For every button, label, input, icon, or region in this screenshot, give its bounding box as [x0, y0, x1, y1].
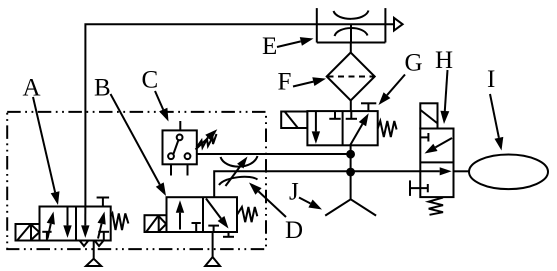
valve G right-box diagonal arrow [350, 113, 368, 145]
valve A spring [111, 213, 129, 230]
valve H middle-box blocked port [420, 133, 428, 142]
wire: supply line from valve A up and across to venturi E [85, 24, 394, 206]
switch C terminal legs [171, 164, 188, 175]
wire from switch C to upper junction [197, 153, 351, 155]
valve A exhaust line and triangle [86, 240, 101, 266]
valve A body [40, 207, 111, 241]
leader arrow for label G [379, 75, 406, 106]
junction node (upper) [346, 150, 355, 159]
leader arrow for label B [111, 94, 167, 196]
valve B right-box port T stub [208, 226, 219, 232]
leader arrow for label A [33, 97, 60, 205]
wire filter F to valve G [350, 101, 352, 112]
valve A solenoid box [16, 224, 40, 241]
leader arrow for label I [490, 94, 503, 151]
valve G body [307, 111, 377, 145]
valve H flow line and arrow [420, 167, 451, 175]
valve A left-box diagonal up arrow [47, 212, 55, 239]
wire venturi E to filter F [350, 43, 352, 54]
wire valve H to balloon I [454, 170, 470, 172]
valve A top port T [97, 198, 110, 207]
valve B right-box diagonal arrow [206, 199, 229, 229]
valve G solenoid box [281, 112, 307, 129]
valve B bottom port T stub [223, 232, 234, 237]
valve H body [420, 129, 453, 198]
balloon I (ellipse) [469, 155, 548, 190]
junction node (lower) [346, 168, 355, 177]
throttle valve D arcs [219, 156, 258, 185]
throttle D adjustment arrow [226, 157, 248, 187]
valve A right-box bottom T [98, 232, 109, 241]
svg-text:I: I [487, 66, 495, 93]
valve G spring [378, 121, 397, 137]
valve B left-box up arrow [176, 200, 184, 229]
svg-text:C: C [142, 67, 159, 94]
valve B exhaust line and triangle [205, 232, 220, 266]
leader arrow for label D [249, 183, 286, 218]
wire valve G down to junctions [350, 145, 352, 199]
switch C contacts [168, 135, 190, 160]
wire from throttle D through lower junction to valve H [214, 171, 420, 197]
valve B spring [237, 207, 257, 222]
vacuum generator E (venturi) [317, 8, 386, 42]
switch C adjustment arrow [196, 129, 218, 149]
leader arrow for label E [277, 37, 314, 47]
valve B left-box blocked port T [192, 223, 201, 232]
exhaust open arrow right of venturi E [394, 18, 403, 31]
svg-text:H: H [435, 47, 453, 74]
leader arrow for label C [155, 91, 169, 122]
valve B solenoid box [145, 215, 167, 232]
svg-text:J: J [289, 179, 299, 206]
svg-text:E: E [262, 33, 277, 60]
valve B body [167, 197, 238, 232]
dash-dot enclosure box [7, 112, 266, 249]
svg-text:F: F [278, 69, 292, 96]
leader arrow for label H [440, 70, 449, 124]
valve A right-box down arrow (supply) [81, 207, 89, 238]
pressure switch C box [163, 130, 197, 164]
valve G left-box down arrow [312, 111, 320, 144]
valve G pilot port T on top [361, 103, 376, 111]
valve A exhaust V ports [80, 240, 104, 246]
switch C plunger stub [179, 121, 181, 130]
switch C adjustment spring [197, 134, 217, 148]
valve A left-box down arrow [63, 207, 71, 238]
svg-text:B: B [94, 75, 111, 102]
valve G blocked port T stubs [329, 111, 357, 119]
valve H spring [429, 198, 443, 215]
valve H middle-box diagonal arrow [425, 138, 453, 154]
exhaust Y symbol J [325, 199, 376, 215]
valve H solenoid box [420, 103, 437, 128]
svg-text:A: A [23, 75, 41, 102]
valve A left-box bottom T [42, 232, 51, 241]
svg-text:D: D [285, 217, 303, 244]
svg-text:G: G [405, 50, 423, 77]
leader arrow for label J [299, 198, 322, 210]
filter F (diamond with dashed line) [327, 53, 375, 101]
valve A right-box diagonal up arrow [98, 212, 106, 239]
leader arrow for label F [293, 77, 326, 86]
valve H capped pilot port [410, 180, 428, 196]
